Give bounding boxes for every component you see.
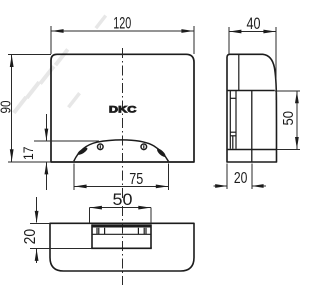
dim 90 left [8, 54, 51, 162]
svg-text:DKC: DKC [109, 105, 137, 115]
side view outline [227, 54, 277, 162]
step line [227, 149, 277, 151]
arch (cable opening) [74, 140, 169, 161]
channel thick top band [92, 224, 152, 227]
svg-text:120: 120 [113, 14, 131, 32]
svg-text:50: 50 [113, 191, 133, 209]
dim 20 bottom view left [30, 197, 92, 263]
bottom view outline [50, 223, 194, 271]
right leaf slot [156, 148, 167, 159]
svg-text:17: 17 [21, 147, 36, 161]
dim 20 bottom side view [214, 164, 267, 190]
dim 50 bottom view [89, 208, 151, 223]
svg-text:20: 20 [22, 229, 39, 245]
screw right [141, 144, 147, 150]
slot row with tabs [92, 228, 151, 235]
dim 120 top [51, 26, 194, 54]
svg-text:75: 75 [129, 171, 143, 188]
dim 17 left [34, 114, 99, 190]
front box outline [51, 54, 194, 162]
watermark [12, 14, 107, 114]
split line [227, 90, 275, 92]
centerline bottom view [122, 206, 124, 285]
left leaf slot [77, 146, 89, 156]
inner wall [251, 91, 253, 163]
channel walls and bottom [91, 224, 152, 248]
inner vertical upper [238, 55, 240, 91]
channel column [230, 91, 236, 149]
dim 40 top side view [229, 27, 276, 100]
svg-text:50: 50 [280, 111, 297, 126]
centerline front view [122, 48, 124, 199]
svg-text:20: 20 [234, 170, 248, 187]
dim 75 bottom of front view [74, 164, 168, 191]
dim 50 right side view [275, 91, 300, 150]
svg-text:40: 40 [247, 15, 261, 33]
screw left [98, 144, 104, 150]
